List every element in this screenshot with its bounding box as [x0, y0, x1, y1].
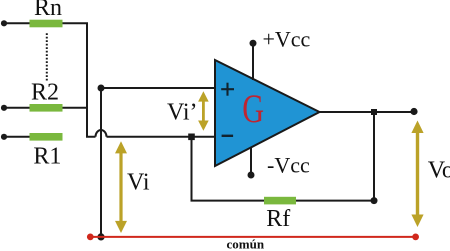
node +Vcc terminal: [250, 40, 257, 47]
svg-text:Vi: Vi: [127, 170, 150, 196]
wire: [63, 107, 89, 109]
svg-text:Vi’: Vi’: [167, 100, 198, 126]
wire: [63, 22, 89, 24]
resistor Rf: [264, 197, 296, 205]
wire común (common rail): [90, 236, 415, 238]
dotted continuation line: [46, 33, 48, 80]
wire (feedback drop): [373, 112, 375, 201]
pin - (inverting): [222, 135, 234, 137]
resistor Rn: [30, 20, 63, 28]
wire (ground drop): [100, 88, 102, 237]
wire hop (crossover bump): [96, 130, 107, 137]
svg-text:+Vcc: +Vcc: [263, 27, 311, 52]
node input n (terminal dot): [1, 20, 7, 26]
voltage arrow Vo (output voltage): [411, 121, 423, 228]
pin + (non-inverting): [221, 83, 234, 96]
node común left terminal: [87, 234, 94, 241]
svg-text:-Vcc: -Vcc: [267, 153, 310, 178]
svg-text:Rf: Rf: [266, 206, 290, 232]
node inverting input (square junction): [188, 134, 195, 141]
node junction on común: [97, 233, 104, 240]
wire: [4, 107, 30, 109]
wire (bus joining resistor outputs): [87, 23, 96, 137]
svg-text:Rn: Rn: [34, 0, 62, 21]
resistor R2: [30, 104, 63, 112]
wire (-Vcc supply): [250, 147, 252, 175]
voltage arrow Vi (input voltage): [115, 141, 127, 233]
wire (non-inverting input): [101, 87, 215, 89]
voltage arrow Vi' (differential input): [198, 91, 209, 131]
svg-text:R2: R2: [31, 79, 59, 105]
resistor R1: [30, 133, 63, 141]
op-amp U1: [215, 60, 320, 166]
wire (summing node to inverting input): [107, 136, 216, 138]
wire: [4, 22, 30, 24]
wire (+Vcc supply): [252, 43, 254, 80]
svg-text:G: G: [242, 86, 264, 131]
node común right terminal: [412, 234, 419, 241]
node feedback tap (square junction): [371, 109, 377, 115]
svg-text:Vo: Vo: [428, 157, 450, 183]
wire: [4, 136, 30, 138]
node ground tap (junction dot): [98, 85, 105, 92]
svg-text:R1: R1: [33, 144, 61, 170]
node input 1 (terminal dot): [1, 134, 7, 140]
node output terminal: [410, 108, 417, 115]
svg-text:común: común: [227, 237, 265, 251]
wire (feedback to inverting node): [192, 137, 265, 201]
node feedback junction dot: [371, 197, 378, 204]
node input 2 (terminal dot): [1, 105, 7, 111]
wire (output): [318, 111, 414, 113]
node -Vcc terminal: [248, 172, 255, 179]
wire (feedback bottom): [296, 200, 374, 202]
